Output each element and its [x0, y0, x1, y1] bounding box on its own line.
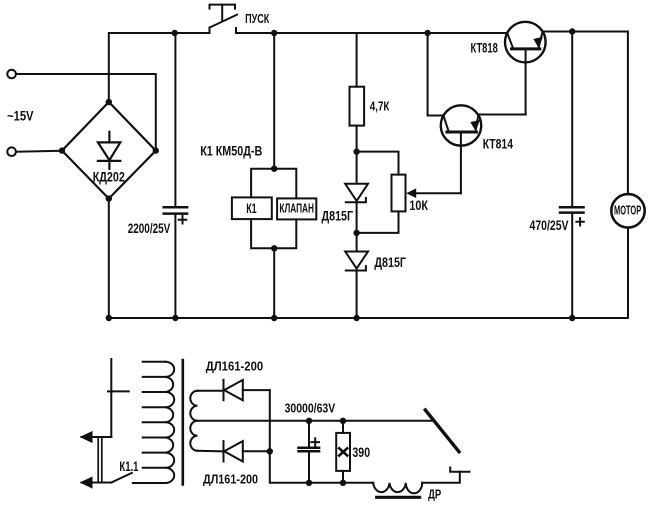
motor M1 [611, 194, 644, 318]
node between zeners [353, 230, 359, 236]
node bridge left [59, 147, 65, 153]
svg-text:К1.1: К1.1 [119, 459, 138, 474]
zener diode VD2 Д815Г (upper) [345, 184, 368, 233]
diode VD5 ДЛ161-200 (lower) [224, 441, 270, 461]
svg-text:10К: 10К [409, 197, 428, 213]
diode VD4 ДЛ161-200 (upper) [224, 380, 270, 401]
svg-text:ПУСК: ПУСК [245, 11, 269, 26]
node rail at R3 [340, 418, 346, 424]
wire [16, 74, 156, 151]
svg-text:ДЛ161-200: ДЛ161-200 [206, 359, 264, 373]
svg-text:КТ818: КТ818 [471, 40, 499, 55]
node rail at C3 [306, 418, 312, 424]
svg-text:2200/25V: 2200/25V [128, 220, 171, 236]
svg-text:470/25V: 470/25V [530, 218, 569, 233]
knife switch output blade [425, 410, 459, 452]
node bottom bus at C1 [172, 315, 178, 321]
svg-text:ДЛ161-200: ДЛ161-200 [203, 472, 258, 486]
wire bridge top to top bus [109, 33, 210, 102]
transistor Q2 КТ814 [428, 33, 526, 146]
inductor ДР choke [373, 472, 460, 498]
transformer T1 secondary winding [190, 391, 222, 452]
node bottom bus at bridge [106, 315, 112, 321]
diode КД202 symbol inside bridge [98, 132, 120, 169]
terminal input 1 [7, 70, 16, 79]
node top bus at C1 [172, 30, 178, 36]
transformer T1 primary winding [133, 362, 174, 483]
svg-text:К1: К1 [246, 201, 257, 216]
node top bus at relay [271, 30, 277, 36]
capacitor C1 2200/25V [164, 33, 187, 318]
svg-text:Д815Г: Д815Г [322, 208, 354, 223]
node relay bottom join [271, 245, 277, 251]
relay contact K1.1 [82, 359, 132, 487]
wire diode outputs join [270, 390, 309, 483]
wire top bus (pushbutton to KT818) [236, 32, 507, 34]
wire bottom bus [109, 317, 628, 319]
node bridge right [153, 147, 159, 153]
svg-text:390: 390 [352, 445, 370, 460]
knife switch lower jaw [450, 468, 469, 472]
svg-text:~15V: ~15V [7, 109, 33, 124]
svg-text:МОТОР: МОТОР [614, 202, 641, 217]
node top bus at KT814 branch [424, 30, 430, 36]
capacitor C3 30000/63V [299, 421, 320, 483]
capacitor C2 470/25V [560, 32, 584, 319]
node bottom rail at R3 [340, 480, 346, 486]
node bottom bus at zeners [353, 315, 359, 321]
terminal input 2 [7, 147, 16, 156]
node diode join [267, 448, 273, 454]
wire bottom output rail [309, 482, 373, 484]
node bottom rail at C3 [306, 480, 312, 486]
wire zener node to potentiometer bottom [357, 211, 399, 233]
svg-text:КТ814: КТ814 [483, 136, 514, 151]
node bottom bus at relay [271, 315, 277, 321]
node bridge bottom [106, 195, 112, 201]
potentiometer R2 10К [392, 132, 461, 211]
resistor R1 4,7К [350, 33, 365, 183]
svg-text:К1 КМ50Д-В: К1 КМ50Д-В [200, 143, 262, 158]
wire node to potentiometer top [357, 152, 399, 175]
transformer core [182, 360, 185, 485]
svg-text:ДР: ДР [428, 487, 441, 501]
transistor Q1 КТ818 [505, 22, 546, 115]
wire [16, 150, 62, 153]
relay K1 КМ50Д-В [232, 33, 316, 318]
node bottom bus at C2 [569, 315, 575, 321]
svg-text:КЛАПАН: КЛАПАН [279, 201, 314, 216]
node top bus at C2 [569, 28, 575, 34]
node relay top split [271, 166, 277, 172]
node below R1 [353, 148, 359, 154]
svg-text:Д815Г: Д815Г [374, 255, 406, 270]
svg-text:КД202: КД202 [93, 169, 125, 184]
node bridge top [106, 99, 112, 105]
svg-text:30000/63V: 30000/63V [285, 401, 336, 415]
wire bridge bottom to bottom bus [108, 199, 110, 318]
zener diode VD3 Д815Г (lower) [345, 233, 368, 318]
wire centre tap rail [198, 420, 434, 422]
wire top bus right of KT818 [543, 32, 628, 195]
svg-text:4,7К: 4,7К [370, 100, 390, 114]
diode bridge VD1 diamond [62, 102, 156, 199]
resistor R3 390 [336, 421, 350, 483]
pushbutton ПУСК [210, 5, 238, 33]
